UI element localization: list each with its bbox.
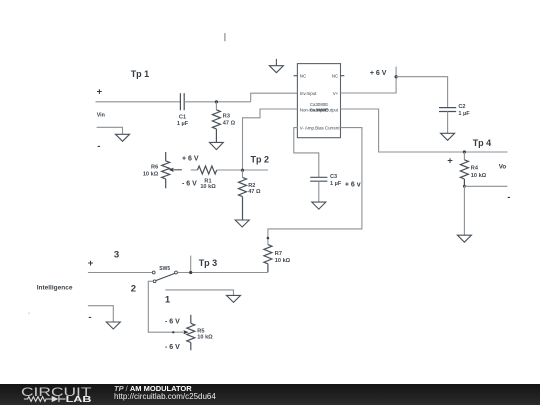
- svg-text:47 Ω: 47 Ω: [248, 189, 261, 195]
- ground below R3: [210, 142, 224, 149]
- wire +6V node to C2: [396, 77, 448, 107]
- svg-text:NC: NC: [332, 74, 338, 79]
- wire R4 bottom to ground: [463, 186, 465, 235]
- svg-text:10 kΩ: 10 kΩ: [200, 184, 216, 190]
- svg-text:LAB: LAB: [66, 395, 92, 404]
- svg-text:C2: C2: [458, 104, 465, 110]
- svg-text:+ 6 V: + 6 V: [370, 70, 387, 77]
- pin stub NC right: [341, 75, 345, 77]
- svg-text:+ 6 V: + 6 V: [182, 156, 199, 163]
- wire R4 bottom to Vo-: [464, 185, 507, 187]
- wire Output to Tp4 rail: [341, 109, 508, 152]
- wire V- pin to C3: [294, 128, 319, 177]
- pin stub NC left: [294, 75, 298, 77]
- logo CircuitLab: [10, 384, 120, 405]
- svg-text:Tp 2: Tp 2: [251, 155, 270, 165]
- svg-text:1 µF: 1 µF: [177, 121, 189, 127]
- svg-text:Intelligence: Intelligence: [37, 285, 73, 292]
- svg-text:Vo: Vo: [499, 163, 507, 170]
- ground Vin: [116, 134, 130, 141]
- ground below R2: [235, 220, 249, 227]
- footer title TP / AM MODULATOR: [114, 385, 192, 393]
- capacitor C1: [180, 93, 184, 110]
- ground below C2: [441, 133, 455, 140]
- junction node R4 bottom: [463, 185, 466, 188]
- svg-text:Tp 3: Tp 3: [199, 258, 218, 268]
- ground below R4: [457, 235, 471, 242]
- svg-text:10 kΩ: 10 kΩ: [471, 173, 487, 179]
- wire Intelligence+ to switch: [88, 272, 152, 274]
- pot R6 wiper arrow: [174, 169, 182, 171]
- decorative tick: [224, 33, 226, 41]
- wire R1 to Tp2 node: [217, 169, 268, 171]
- svg-text:V- Amp.Bias Current: V- Amp.Bias Current: [300, 125, 341, 130]
- footer url: [114, 393, 216, 401]
- wire pos1 to ground: [165, 290, 233, 296]
- svg-text:- 6 V: - 6 V: [165, 318, 180, 325]
- svg-text:NC: NC: [300, 74, 306, 79]
- junction node +6V: [395, 75, 398, 78]
- pin labels: [300, 74, 341, 131]
- ground below C3: [312, 202, 326, 209]
- potentiometer R6: [162, 152, 170, 188]
- svg-text:R7: R7: [275, 251, 282, 257]
- svg-text:Inv.Input: Inv.Input: [300, 91, 317, 96]
- svg-text:.: .: [28, 309, 30, 316]
- wire switch common to R7: [178, 272, 268, 274]
- wire Vin- to ground: [97, 127, 123, 134]
- footer bar: [0, 384, 540, 405]
- svg-text:Tp 1: Tp 1: [131, 69, 150, 79]
- wire C1 to step: [184, 101, 251, 103]
- svg-text:- 6 V: - 6 V: [165, 344, 180, 351]
- svg-text:+: +: [88, 258, 94, 269]
- svg-text:3: 3: [114, 249, 119, 260]
- junction node on wiper wire: [172, 331, 174, 333]
- svg-text:C1: C1: [179, 114, 186, 120]
- resistor R2: [239, 170, 247, 220]
- svg-text:+: +: [447, 156, 453, 167]
- op-amp U1 Ca3080E body: [297, 64, 340, 138]
- svg-text:1 µF: 1 µF: [330, 181, 342, 187]
- svg-text:Ca3080E: Ca3080E: [310, 107, 328, 112]
- resistor R1: [198, 166, 217, 174]
- junction node C1/R3: [215, 100, 218, 103]
- svg-text:Tp 4: Tp 4: [473, 138, 492, 148]
- svg-text:SW5: SW5: [159, 266, 170, 272]
- svg-text:10 kΩ: 10 kΩ: [197, 335, 213, 341]
- capacitor C2: [439, 108, 456, 134]
- svg-text:R4: R4: [471, 165, 479, 171]
- svg-text:1: 1: [165, 295, 171, 306]
- svg-text:-: -: [97, 141, 100, 152]
- svg-text:+ 6 v: + 6 v: [345, 181, 361, 188]
- wire switch pos2 to R5 wiper: [148, 281, 183, 332]
- junction node Tp4: [463, 150, 466, 153]
- wire Intelligence- to ground: [88, 306, 113, 322]
- wire R6 wiper to R1 (with gap): [191, 169, 198, 171]
- pot R5 wiper arrow: [184, 330, 189, 334]
- svg-text:10 kΩ: 10 kΩ: [275, 258, 291, 264]
- floating ground near IC: [269, 59, 283, 73]
- junction node Tp3: [189, 271, 192, 274]
- svg-text:1 µF: 1 µF: [458, 111, 470, 117]
- svg-text:47 Ω: 47 Ω: [223, 121, 236, 127]
- wire V+ to +6V node: [341, 67, 397, 93]
- svg-text:- 6 V: - 6 V: [182, 180, 197, 187]
- wire Vin+ to C1: [96, 101, 181, 103]
- svg-text:R6: R6: [151, 165, 158, 171]
- svg-text:V+: V+: [333, 91, 339, 96]
- svg-text:R5: R5: [197, 329, 204, 335]
- resistor R4: [460, 152, 468, 186]
- resistor R7: [264, 245, 272, 273]
- svg-text:R3: R3: [223, 114, 230, 120]
- ground pos1: [227, 295, 241, 302]
- svg-text:C3: C3: [330, 174, 337, 180]
- svg-text:10 kΩ: 10 kΩ: [143, 171, 159, 177]
- wire step up to Inv.Input: [251, 93, 298, 102]
- svg-text:-: -: [507, 192, 510, 203]
- wire bias pin to R7: [268, 128, 362, 245]
- capacitor C3: [310, 177, 327, 202]
- svg-text:2: 2: [131, 284, 136, 295]
- wire Non-Inv.Input to Tp2 node: [243, 109, 298, 170]
- switch SW5 blade: [156, 273, 175, 280]
- potentiometer R5: [187, 315, 195, 351]
- junction node on R7 wire: [267, 237, 270, 240]
- svg-text:+: +: [97, 87, 103, 98]
- junction node Tp2: [241, 169, 244, 172]
- wire Tp3 stub: [190, 256, 192, 273]
- svg-text:Vin: Vin: [97, 113, 105, 119]
- resistor R3: [212, 102, 220, 142]
- ground Intelligence-: [106, 322, 120, 329]
- switch SW5 pole contacts: [152, 271, 155, 274]
- svg-text:-: -: [88, 312, 91, 323]
